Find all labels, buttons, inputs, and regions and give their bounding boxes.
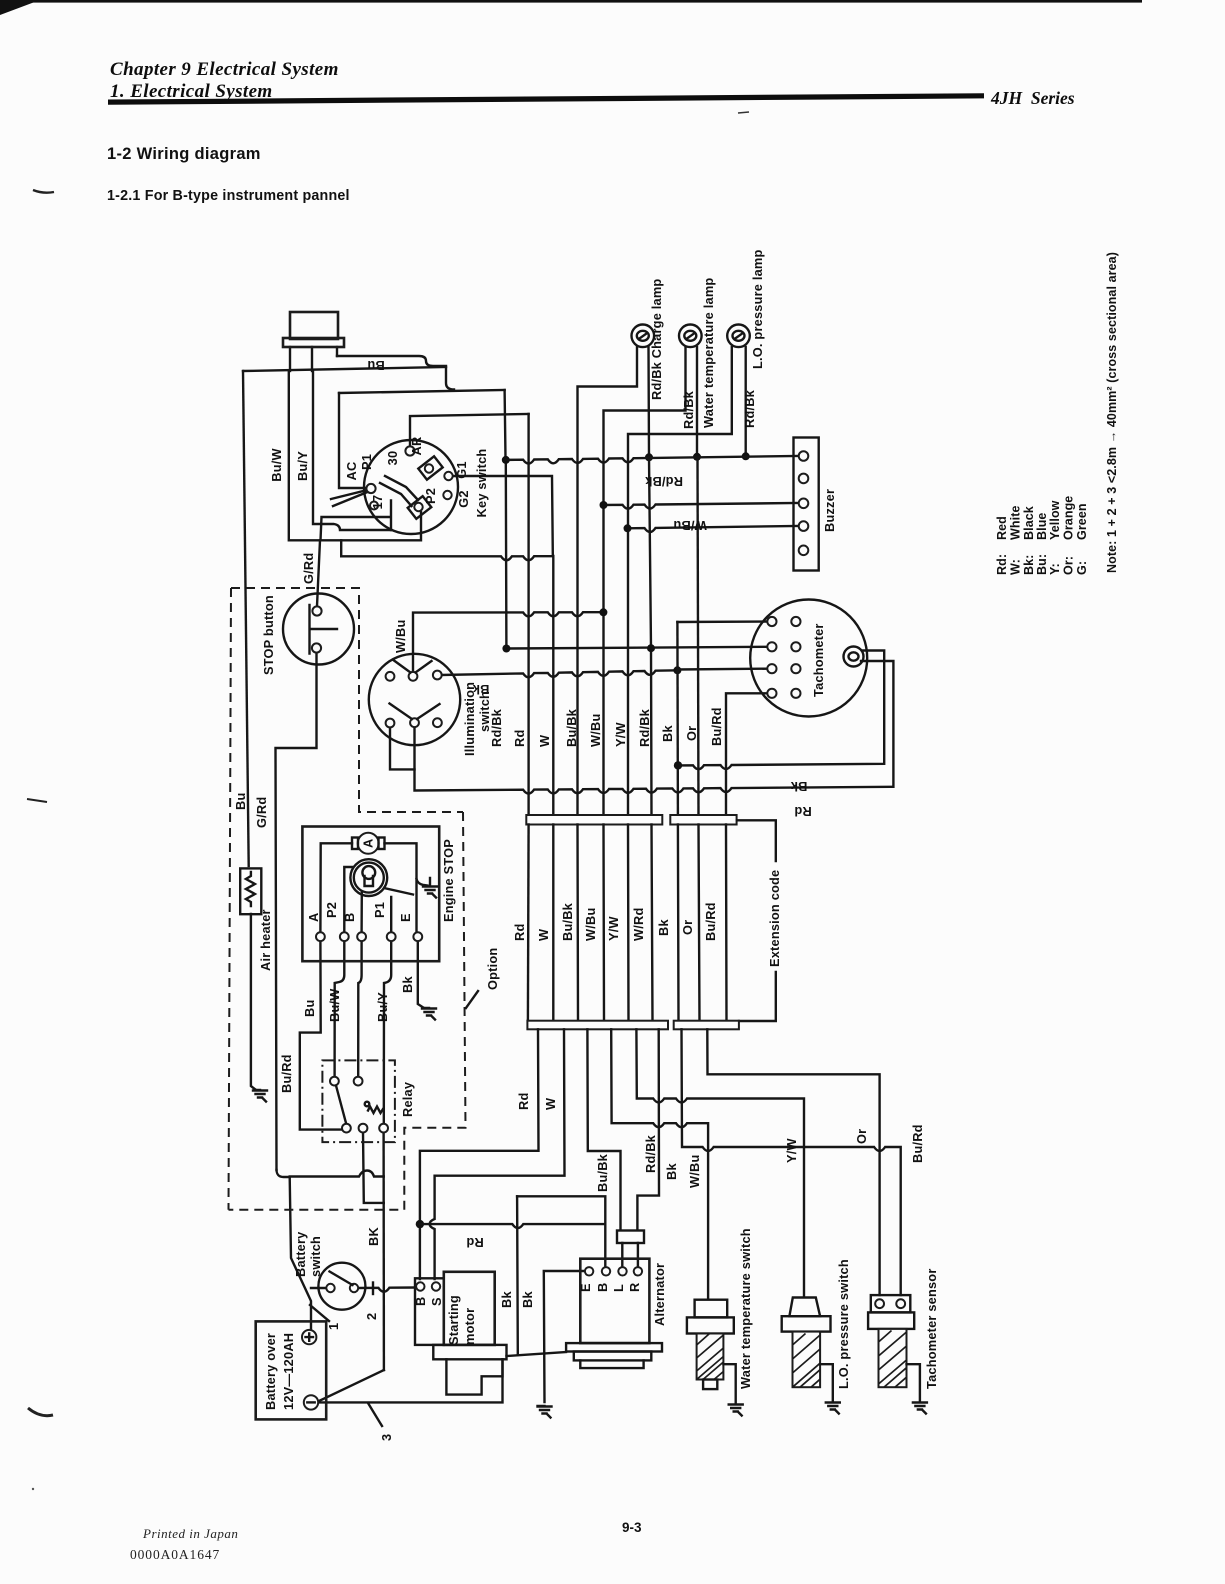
wire Bk bus to tach pin1 (677, 620, 767, 623)
svg-text:Bk:: Bk: (1022, 555, 1036, 575)
header (107, 59, 1075, 204)
bus bar set1 left (526, 815, 662, 825)
ground starter E (538, 1406, 552, 1418)
wire Bk bus (676, 622, 679, 815)
svg-text:AC: AC (344, 462, 359, 481)
extension code bracket top (737, 820, 776, 861)
top connector body (290, 312, 338, 339)
svg-text:Or: Or (854, 1129, 869, 1144)
svg-text:3: 3 (379, 1434, 394, 1441)
svg-text:Bu/Rd: Bu/Rd (910, 1124, 925, 1163)
svg-text:Or: Or (680, 920, 695, 935)
water switch side wire (723, 1364, 735, 1404)
air heater R1 (240, 868, 261, 914)
leader 3 (368, 1403, 382, 1426)
wire bus W mid (552, 825, 554, 1021)
footer (130, 1520, 642, 1562)
svg-text:Rd: Rd (512, 730, 527, 747)
key switch P2 contact upper (418, 456, 442, 479)
wire P1 wiper diagonals (331, 490, 368, 506)
wire engine stop P1 to relay (384, 941, 391, 1124)
buzzer pins (799, 451, 809, 461)
svg-text:A: A (306, 913, 321, 922)
wire W-Rd lower riser to connector R (637, 1029, 659, 1230)
connector stub right (336, 347, 338, 356)
wire illum bottom-left pin L (390, 727, 415, 769)
svg-text:Bu/Rd: Bu/Rd (279, 1054, 294, 1093)
svg-text:R: R (627, 1283, 642, 1292)
svg-text:W/Rd: W/Rd (631, 908, 646, 942)
svg-text:B: B (342, 913, 357, 922)
wire Or bus (698, 457, 699, 815)
wire Bk lower riser to tach sensor right (682, 1029, 901, 1295)
svg-text:G2: G2 (456, 490, 471, 507)
svg-text:Or: Or (684, 726, 699, 741)
svg-text:Y/W: Y/W (613, 722, 628, 747)
wire W-Bu lower riser to water switch (611, 1029, 708, 1299)
svg-text:P1: P1 (372, 902, 387, 918)
wire Y-W bus top from LO lamp (628, 347, 732, 815)
node Rd junction (416, 1220, 424, 1228)
engine stop solenoid (350, 859, 387, 896)
svg-text:Rd/Bk: Rd/Bk (644, 474, 683, 489)
svg-text:W:: W: (1009, 559, 1023, 575)
svg-text:G1: G1 (454, 461, 469, 478)
svg-text:Bu: Bu (233, 793, 248, 810)
extension code bracket bottom (739, 972, 776, 1021)
LO pressure switch (789, 1298, 820, 1317)
svg-text:Bu: Bu (302, 1000, 317, 1017)
wire Rd to alternator B (420, 1224, 605, 1228)
svg-text:Bu/Y: Bu/Y (295, 451, 310, 481)
wire Rd bus (527, 414, 529, 815)
ground engine stop E (422, 1008, 436, 1020)
svg-text:A: A (361, 839, 376, 848)
battery minus terminal (304, 1395, 318, 1409)
wire relay mid pin drop (363, 1132, 384, 1203)
svg-text:17: 17 (370, 495, 385, 510)
wire bus W-Rd mid (652, 825, 653, 1021)
svg-text:L.O. pressure lamp: L.O. pressure lamp (750, 249, 765, 369)
node LO lamp Rd-Bk (742, 452, 750, 460)
bus bar set1 right (670, 815, 736, 825)
wire key box left and to P1 (339, 393, 367, 488)
wire W lower riser to S (430, 1029, 565, 1279)
relay K1 dashdot box (322, 1060, 395, 1142)
wire Or lower riser to tach sensor left (707, 1029, 879, 1295)
svg-text:Option: Option (485, 948, 500, 990)
wire Bk starter flange line (517, 1196, 605, 1267)
svg-text:Battery over: Battery over (263, 1333, 278, 1410)
connector stub mid (311, 347, 313, 371)
alternator body (580, 1259, 649, 1343)
starter lower body (446, 1359, 502, 1394)
svg-text:Alternator: Alternator (652, 1263, 667, 1326)
illumination switch SW2 body (369, 654, 460, 745)
wire bus Bk mid (677, 825, 680, 1021)
node W-Bu buzzer (600, 501, 608, 509)
svg-text:12V—120AH: 12V—120AH (281, 1333, 296, 1410)
svg-text:Rd/Bk: Rd/Bk (681, 390, 696, 429)
wire AR to Rd bus top (410, 414, 529, 451)
svg-text:Bu/W: Bu/W (327, 988, 342, 1022)
wire Bu-Y rail (313, 371, 391, 530)
svg-text:Bu/Bk: Bu/Bk (564, 708, 579, 747)
svg-text:L.O. pressure switch: L.O. pressure switch (836, 1259, 851, 1389)
wire charge lamp right to Rd-Bk rail (647, 347, 650, 456)
key switch pin G2 (443, 491, 451, 499)
svg-text:B: B (413, 1297, 428, 1306)
svg-text:Key switch: Key switch (474, 449, 489, 518)
svg-text:Bk: Bk (664, 1163, 679, 1180)
ground LO switch (826, 1403, 840, 1414)
alternator connector stubs (622, 1243, 638, 1267)
svg-text:W: W (536, 928, 551, 941)
alternator lower body (574, 1352, 652, 1361)
svg-text:Illumination: Illumination (462, 682, 477, 756)
svg-text:Black: Black (1022, 506, 1036, 540)
svg-text:30: 30 (385, 451, 400, 466)
svg-text:Water temperature lamp: Water temperature lamp (701, 278, 716, 428)
node illum Bk bus (673, 666, 681, 674)
node water lamp Rd-Bk (693, 453, 701, 461)
svg-text:Extension code: Extension code (767, 870, 782, 967)
wire bus W-Bu mid (602, 825, 605, 1021)
starting motor body (444, 1272, 495, 1345)
stop button pin bottom (312, 643, 321, 652)
svg-text:W/Bu: W/Bu (583, 908, 598, 942)
solenoid keyhole (362, 866, 375, 879)
wire W bus (552, 556, 554, 815)
left margin dash 3 (28, 1408, 53, 1416)
svg-text:Tachometer: Tachometer (811, 623, 826, 697)
svg-text:Bk: Bk (790, 779, 807, 794)
small mark near header (738, 112, 749, 113)
wire G-Rd drop to stop button (317, 540, 320, 606)
wire bus Y-W mid (627, 825, 630, 1021)
wire long top rail to Bu rail (243, 367, 446, 371)
svg-text:Bu/Y: Bu/Y (375, 992, 390, 1022)
svg-text:Bk: Bk (520, 1291, 535, 1308)
svg-text:BK: BK (366, 1227, 381, 1246)
ammeter left wire (320, 843, 352, 932)
relay coil (368, 1107, 383, 1114)
wire bus Rd mid (527, 825, 530, 1021)
wire Bk bus to tach pin3 (678, 668, 767, 671)
top-left corner wedge (0, 0, 40, 15)
option leader (466, 991, 478, 1008)
svg-text:1-2.1 For B-type instrument pa: 1-2.1 For B-type instrument pannel (107, 188, 350, 204)
wire bus Bu-Rd mid (725, 825, 728, 1021)
svg-text:W: W (543, 1097, 558, 1110)
engine stop box (302, 827, 439, 962)
svg-text:Y:: Y: (1048, 563, 1062, 575)
wire bus Bu-Bk mid (576, 825, 579, 1021)
wire Y-W lower riser to LO switch (636, 1029, 804, 1296)
svg-text:Blue: Blue (1035, 513, 1049, 541)
svg-text:W/Bu: W/Bu (393, 620, 408, 654)
wire long Rd line illum to tach lamp (415, 661, 894, 794)
svg-text:switch: switch (308, 1236, 323, 1277)
stop button pin top (312, 606, 321, 615)
alternator flange (566, 1343, 662, 1351)
key switch U1 body (364, 440, 458, 534)
bus bar set2 left (527, 1021, 668, 1030)
engine stop pins (316, 932, 325, 941)
wire engine stop B to relay (358, 941, 361, 1077)
wire engine stop E to ground (418, 941, 424, 1008)
svg-text:Rd/Bk: Rd/Bk (489, 708, 504, 747)
svg-text:Green: Green (1075, 503, 1089, 540)
svg-text:Rd: Rd (794, 804, 811, 819)
svg-text:AR: AR (409, 437, 424, 456)
option dashed outline (229, 812, 466, 1210)
small left dot (32, 1488, 34, 1490)
svg-text:W/Bu: W/Bu (687, 1155, 702, 1189)
ground water switch (729, 1405, 743, 1416)
svg-text:L: L (611, 1284, 626, 1292)
alternator connector (617, 1231, 644, 1244)
starter pin block (415, 1278, 444, 1345)
wire stop button lower to G-Rd rail (276, 652, 317, 1170)
wire LO lamp right to Rd-Bk rail (745, 347, 747, 456)
ground tach sensor (913, 1403, 927, 1414)
svg-text:G/Rd: G/Rd (301, 553, 316, 584)
svg-text:Y/W: Y/W (784, 1138, 799, 1163)
svg-text:Bu/Bk: Bu/Bk (595, 1153, 610, 1192)
wire W-Bu line to buzzer pin3 (604, 503, 799, 509)
svg-text:Chapter 9 Electrical System: Chapter 9 Electrical System (110, 59, 339, 80)
svg-text:Printed in Japan: Printed in Japan (142, 1526, 238, 1541)
svg-text:G:: G: (1075, 561, 1089, 575)
svg-text:Bu: Bu (367, 358, 384, 373)
wire Rd-Bk to tach pin2 (506, 647, 767, 649)
bus bar set2 right (674, 1021, 739, 1030)
node key box/Rd-Bk rail (502, 456, 510, 464)
wire air heater to ground (251, 914, 256, 1090)
svg-text:Relay: Relay (400, 1081, 415, 1117)
alternator pins (585, 1267, 593, 1275)
wire illum top-right to Bk bus (441, 670, 677, 677)
wire BK vertical (382, 1132, 385, 1370)
wire Rd lower riser (420, 1029, 539, 1279)
wire Bu-Bk lower riser to connector L (587, 1029, 620, 1230)
wire Bu step from connector (337, 356, 454, 390)
svg-text:Rd: Rd (512, 924, 527, 941)
wire W-Bu bus top from water lamp (604, 347, 686, 815)
svg-text:Bu:: Bu: (1035, 554, 1049, 575)
svg-text:Air heater: Air heater (258, 909, 273, 971)
diagram wires (243, 347, 901, 1402)
battery switch SW3 (318, 1263, 365, 1310)
tachometer lamp (844, 647, 864, 667)
svg-text:Note: 1 + 2 + 3 <2.8m → 40mm²: Note: 1 + 2 + 3 <2.8m → 40mm² (cross sec… (1105, 252, 1119, 573)
node Rd-Bk tach (647, 644, 655, 652)
stop button contact (310, 605, 338, 654)
wire Rd-Bk rail to buzzer pin1 (506, 456, 798, 464)
svg-text:Yellow: Yellow (1048, 500, 1062, 540)
left margin dash 1 (33, 190, 54, 193)
LO switch side wire (820, 1364, 833, 1402)
node Y-W buzzer (624, 524, 632, 532)
relay lever (336, 1086, 346, 1124)
wire G1 to W bus top (453, 476, 553, 554)
key switch wiper arm (380, 476, 418, 506)
svg-text:Tachometer sensor: Tachometer sensor (924, 1268, 939, 1389)
wire battery switch to starter B (359, 1288, 416, 1292)
battery (256, 1321, 327, 1419)
svg-text:W: W (537, 734, 552, 747)
svg-text:1: 1 (326, 1323, 341, 1330)
leader 2 tick (372, 1283, 374, 1295)
svg-text:Rd:: Rd: (995, 554, 1009, 575)
ground engine stop inner (417, 879, 428, 886)
svg-text:2: 2 (364, 1313, 379, 1320)
svg-text:Rd/Bk: Rd/Bk (637, 708, 652, 747)
buzzer body (794, 438, 819, 571)
battery switch lever (330, 1272, 353, 1286)
svg-text:Rd: Rd (466, 1235, 483, 1250)
legend (995, 252, 1119, 575)
wire illum W-Bu drop (413, 612, 603, 671)
key switch pin 17 (370, 502, 378, 510)
tach sensor side wire (907, 1364, 920, 1402)
illumination switch pins (386, 672, 395, 681)
svg-text:Battery: Battery (293, 1231, 308, 1277)
water temperature lamp L2 (679, 325, 702, 348)
key switch pin 30 (405, 446, 414, 455)
svg-text:W/Bu: W/Bu (673, 518, 707, 533)
wire starter to alternator flange (507, 1352, 567, 1356)
svg-text:E: E (398, 913, 413, 922)
wire engine stop P2 to relay (335, 941, 345, 1077)
key switch pin P1 (366, 484, 375, 493)
svg-text:Starting: Starting (446, 1295, 461, 1345)
stop button dashed box (229, 588, 464, 1210)
wire pin17 to W bus (321, 501, 392, 541)
svg-text:Bu/Rd: Bu/Rd (703, 902, 718, 941)
water temperature switch (695, 1300, 728, 1318)
wire battery minus to starter (318, 1359, 503, 1402)
svg-text:White: White (1009, 505, 1023, 540)
svg-text:motor: motor (462, 1308, 477, 1345)
wire key box right riser (505, 390, 507, 648)
wire Bk starter riser (516, 1196, 519, 1354)
wire G-Rd jog to battery feed (277, 1170, 290, 1177)
left margin dash 2 (27, 799, 47, 802)
starter flange (433, 1345, 506, 1359)
svg-text:9-3: 9-3 (622, 1520, 642, 1535)
wire tach lamp to Bk bus (678, 651, 884, 770)
wire alternator E to ground (544, 1271, 586, 1402)
svg-text:S: S (429, 1297, 444, 1306)
svg-text:E: E (578, 1283, 593, 1292)
node charge lamp Rd-Bk (645, 453, 653, 461)
svg-text:Bu/Bk: Bu/Bk (560, 902, 575, 941)
svg-text:P2: P2 (324, 902, 339, 918)
svg-text:4JH Series: 4JH Series (990, 88, 1075, 108)
wire key box top (339, 390, 505, 393)
leader 1 (310, 1305, 329, 1321)
svg-text:Bk: Bk (499, 1291, 514, 1308)
wire bus Or mid (699, 825, 700, 1021)
wire Bu rail to air heater (243, 371, 249, 866)
svg-text:Or:: Or: (1062, 556, 1076, 575)
tachometer sensor (871, 1295, 911, 1312)
svg-text:Water temperature switch: Water temperature switch (738, 1228, 753, 1389)
illumination switch contacts V (390, 661, 440, 720)
tachometer body (750, 600, 867, 717)
svg-text:Buzzer: Buzzer (822, 489, 837, 532)
wire battery plus riser (290, 1177, 311, 1332)
svg-text:Bu/Rd: Bu/Rd (709, 707, 724, 746)
svg-text:G/Rd: G/Rd (254, 797, 269, 828)
svg-text:Bk: Bk (660, 725, 675, 742)
svg-text:P1: P1 (359, 454, 374, 470)
svg-text:Y/W: Y/W (606, 916, 621, 941)
svg-text:1-2 Wiring diagram: 1-2 Wiring diagram (107, 145, 261, 163)
svg-text:W/Bu: W/Bu (588, 714, 603, 748)
top connector flange (283, 338, 344, 347)
svg-text:0000A0A1647: 0000A0A1647 (130, 1547, 220, 1562)
wire Y-W line to buzzer pin4 (628, 526, 799, 532)
battery plus terminal (302, 1330, 316, 1344)
svg-text:Rd/Bk Charge lamp: Rd/Bk Charge lamp (649, 279, 664, 400)
node keybox tach line (502, 645, 510, 653)
wire Rd-Bk bus (649, 457, 652, 815)
stop button SW1 (283, 594, 354, 665)
wire BK diagonal to battery minus (319, 1370, 384, 1401)
header rule (108, 93, 984, 105)
svg-text:Bk: Bk (656, 919, 671, 936)
svg-text:B: B (595, 1283, 610, 1292)
svg-text:Orange: Orange (1062, 496, 1076, 540)
top scan edge bar (0, 0, 1142, 3)
svg-text:Rd/Bk: Rd/Bk (643, 1134, 658, 1173)
key switch P2 contact lower (408, 496, 432, 519)
ammeter A (358, 833, 379, 854)
wire Bu-Bk bus top from charge lamp (578, 347, 638, 815)
wire tach pin4 to Bu-Rd bus (726, 693, 767, 815)
svg-text:Engine STOP: Engine STOP (441, 839, 456, 922)
charge lamp L1 (632, 325, 655, 348)
wire water lamp right to Rd-Bk rail (696, 347, 698, 457)
node W-Bu illum (599, 608, 607, 616)
wire engine stop A pin to Bu-Rd (300, 941, 342, 1130)
svg-text:Rd/Bk: Rd/Bk (742, 389, 757, 428)
wire W feed from Bu-W rail (341, 540, 553, 560)
svg-text:Rd: Rd (516, 1093, 531, 1110)
solenoid wires (344, 867, 413, 932)
ground air heater (253, 1090, 267, 1102)
tachometer pins (767, 617, 776, 626)
svg-text:STOP button: STOP button (261, 595, 276, 675)
svg-text:Bk: Bk (400, 976, 415, 993)
wire BK rail from G-Rd (290, 1171, 384, 1177)
svg-text:Red: Red (995, 516, 1009, 540)
wire battery switch left pin tie (311, 1287, 325, 1289)
relay pins (330, 1077, 339, 1086)
LO pressure lamp L3 (727, 325, 750, 348)
ammeter right wire (385, 843, 417, 932)
svg-text:Bu/W: Bu/W (269, 448, 284, 482)
wire Bu-W rail (289, 371, 421, 540)
node tach lamp Bk (674, 761, 682, 769)
key switch pin G1 (444, 472, 452, 480)
svg-text:P2: P2 (423, 488, 438, 504)
connector stub left (289, 347, 291, 371)
